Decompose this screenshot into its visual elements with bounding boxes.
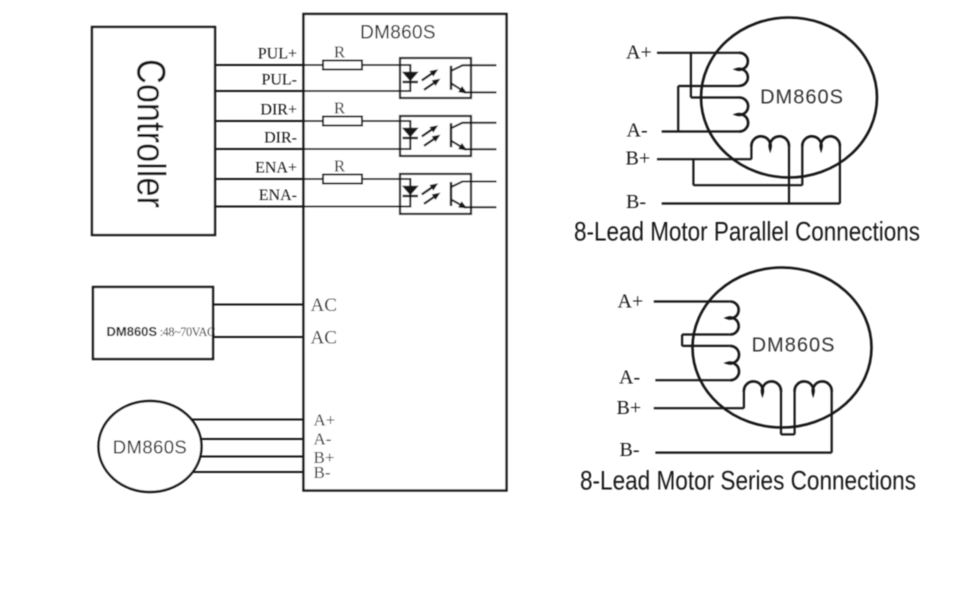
winding W2 (series) <box>727 346 739 380</box>
motor circle (parallel) <box>701 18 877 178</box>
optocoupler U1 phototransistor <box>450 66 452 90</box>
svg-text:ENA-: ENA- <box>259 187 297 204</box>
svg-text:DM860S: DM860S <box>760 87 844 109</box>
wire W1 exit (parallel) <box>678 85 739 87</box>
wire A+ (parallel) <box>657 52 739 54</box>
wire motor A+ <box>190 419 304 421</box>
wire AC top <box>213 304 304 306</box>
svg-text:Controller: Controller <box>129 59 173 208</box>
winding W1 (series) <box>727 301 738 334</box>
wire DIR- <box>215 148 400 150</box>
winding W2 (parallel) <box>737 97 749 131</box>
svg-text:R: R <box>334 157 346 176</box>
wire ENA+ <box>215 178 323 180</box>
winding W3 (series) <box>744 381 781 393</box>
svg-text:R: R <box>334 43 346 62</box>
wire B+ branch horizontal (parallel) <box>693 184 802 186</box>
wire motor B+ <box>199 456 304 458</box>
svg-text:AC: AC <box>311 295 337 316</box>
wire AC bottom <box>213 336 304 338</box>
svg-text:B-: B- <box>620 439 640 461</box>
wire W2 entry (parallel) <box>691 96 739 98</box>
wire B- (parallel) <box>662 202 840 204</box>
optocoupler U1 collector wire <box>462 64 497 66</box>
svg-text:PUL-: PUL- <box>261 72 297 89</box>
resistor R (PUL) <box>323 61 362 70</box>
wire ENA- <box>215 206 400 208</box>
svg-text:A-: A- <box>619 367 640 389</box>
optocoupler U2 LED diode <box>402 128 419 138</box>
svg-text:DIR+: DIR+ <box>260 102 297 119</box>
svg-text:A+: A+ <box>314 411 336 430</box>
optocoupler U2 emitter wire <box>464 148 497 150</box>
svg-text:R: R <box>334 99 346 118</box>
optocoupler U1 LED input leads <box>400 65 410 91</box>
motor circle (series) <box>693 268 872 428</box>
svg-text:PUL+: PUL+ <box>258 46 297 63</box>
optocoupler U1 emitter wire <box>464 91 497 93</box>
svg-text:A-: A- <box>314 430 332 449</box>
wire series link B (bottom) <box>781 433 795 435</box>
optocoupler U3 LED input leads <box>400 179 410 207</box>
wire ENA resistor to optocoupler <box>362 178 400 180</box>
svg-text:B-: B- <box>314 463 331 482</box>
wire A- (parallel) <box>662 130 739 132</box>
svg-text:DM860S: DM860S <box>360 23 436 44</box>
wire A+ (series) <box>654 300 730 302</box>
wire W3 left lead (series) <box>743 392 745 409</box>
svg-text:DM860S: DM860S <box>113 437 187 458</box>
wire DIR resistor to optocoupler <box>362 120 400 122</box>
winding W3 (parallel) <box>751 136 789 148</box>
wire A- (series) <box>655 379 729 381</box>
optocoupler U1 LED diode <box>402 72 419 82</box>
winding W4 (parallel) <box>802 136 840 148</box>
optocoupler U1 light emission arrows <box>422 73 432 80</box>
power supply box <box>93 287 213 359</box>
wire B+ (parallel) <box>657 158 751 160</box>
wire W3 left lead (parallel) <box>750 147 752 160</box>
svg-text:DM860S: DM860S <box>752 335 836 357</box>
wire series link B (left vertical) <box>780 392 782 435</box>
optocoupler U3 box <box>400 174 471 214</box>
winding W1 (parallel) <box>737 53 748 86</box>
wire PUL resistor to optocoupler <box>362 64 400 66</box>
wire W1 exit (series) <box>682 333 730 335</box>
optocoupler U2 LED input leads <box>400 121 410 149</box>
wire junction vertical from A+ (parallel) <box>690 53 692 98</box>
optocoupler U1 box <box>400 58 471 98</box>
svg-text:AC: AC <box>311 328 337 349</box>
svg-text:DIR-: DIR- <box>264 130 297 147</box>
optocoupler U3 LED diode <box>402 186 419 196</box>
wire series link B (right vertical) <box>793 392 795 435</box>
optocoupler U3 emitter wire <box>464 206 497 208</box>
optocoupler U2 box <box>400 116 471 156</box>
controller box <box>92 27 215 235</box>
motor M1 circle <box>99 401 202 492</box>
optocoupler U2 light emission arrows <box>422 129 432 136</box>
wire W4 right lead to B- (series) <box>831 392 833 453</box>
svg-text:B+: B+ <box>617 397 642 419</box>
wire W4 left lead (parallel) <box>801 147 803 186</box>
wire W3 right lead to B- (parallel) <box>788 147 790 204</box>
wire junction vertical to A- (parallel) <box>677 86 679 132</box>
wire motor B- <box>191 471 304 473</box>
wire W2 entry (series) <box>682 345 730 347</box>
winding W4 (series) <box>795 381 832 393</box>
svg-text:8-Lead Motor Parallel Connecti: 8-Lead Motor Parallel Connections <box>574 217 920 247</box>
wire B+ branch vertical (parallel) <box>692 159 694 185</box>
wire B+ (series) <box>654 407 744 409</box>
resistor R (DIR) <box>323 117 362 126</box>
optocoupler U2 phototransistor <box>450 123 452 147</box>
wire DIR+ <box>215 120 323 122</box>
svg-text:8-Lead Motor Series Connection: 8-Lead Motor Series Connections <box>580 466 916 496</box>
driver DM860S box <box>304 14 507 491</box>
optocoupler U2 collector wire <box>462 122 497 124</box>
wire series link A (vertical) <box>681 335 683 346</box>
resistor R (ENA) <box>323 175 362 184</box>
svg-text:A+: A+ <box>618 291 644 313</box>
optocoupler U3 phototransistor <box>450 182 452 206</box>
svg-text:A-: A- <box>627 120 648 142</box>
svg-text:B+: B+ <box>626 148 651 170</box>
wire PUL+ <box>215 64 323 66</box>
wire motor A- <box>199 438 304 440</box>
wire B- (series) <box>655 452 831 454</box>
svg-text:A+: A+ <box>626 42 652 64</box>
wire PUL- <box>215 90 400 92</box>
svg-text:ENA+: ENA+ <box>255 160 297 177</box>
svg-text:B-: B- <box>626 191 646 213</box>
wire W4 right lead to B- (parallel) <box>839 147 841 204</box>
optocoupler U3 light emission arrows <box>422 187 432 194</box>
optocoupler U3 collector wire <box>462 181 497 183</box>
svg-text:DM860S :48~70VAC: DM860S :48~70VAC <box>107 324 215 339</box>
